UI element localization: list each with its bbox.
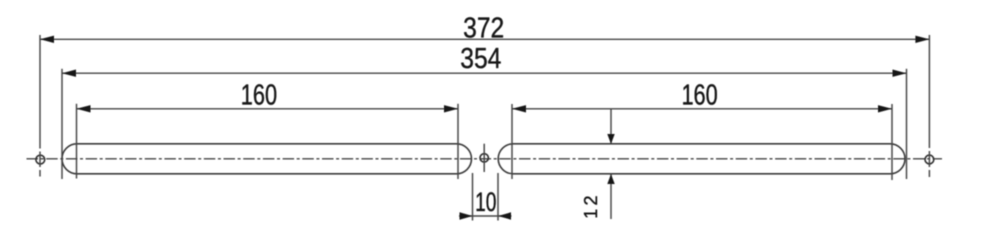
label 354 bbox=[460, 42, 501, 74]
dimension line 160 right bbox=[512, 108, 892, 110]
rod left (pill outline) bbox=[62, 144, 472, 174]
dimension line 10 (gap) with outside arrows bbox=[459, 215, 512, 217]
hole circle left bbox=[36, 155, 45, 164]
label 160 right bbox=[681, 80, 717, 112]
extension line right for gap 10 bbox=[497, 173, 499, 221]
middle circle vertical centerline bbox=[483, 144, 485, 172]
dimension 12 vertical line bottom tail bbox=[610, 174, 612, 219]
arrow 160-right left bbox=[512, 105, 526, 112]
label 160 left bbox=[241, 80, 277, 112]
dimension line 372 bbox=[40, 38, 929, 40]
rod right (pill outline) bbox=[498, 144, 905, 174]
extension line right for 372 (through right circle, dash-dot) bbox=[928, 35, 930, 177]
dimension 12 vertical line top tail bbox=[610, 109, 612, 144]
hole circle right bbox=[925, 155, 934, 164]
extension line left for 354 (tangent to left rod end) bbox=[61, 69, 63, 179]
arrow 10 right (points left) bbox=[498, 212, 511, 219]
extension line left for 160-left (crosses rod) bbox=[76, 104, 78, 179]
arrow 372 left bbox=[40, 36, 54, 43]
extension line left for 160-right (crosses rod) bbox=[511, 104, 513, 179]
dimension line 354 bbox=[62, 72, 907, 74]
arrow 160-left left bbox=[77, 105, 91, 112]
svg-text:372: 372 bbox=[463, 11, 504, 43]
svg-text:12: 12 bbox=[581, 192, 601, 218]
svg-text:160: 160 bbox=[681, 80, 717, 112]
extension line left for 372 (through left circle, dash-dot) bbox=[39, 35, 41, 177]
arrow 354 left bbox=[62, 70, 76, 77]
extension line right for 160-left (crosses rod) bbox=[457, 104, 459, 179]
arrow 10 left (points right) bbox=[460, 212, 473, 219]
dimension line 160 left bbox=[77, 108, 459, 110]
arrow 354 right bbox=[893, 70, 907, 77]
hole circle middle bbox=[480, 154, 488, 162]
arrow 12 top (points down) bbox=[607, 134, 614, 144]
label 372 bbox=[463, 11, 504, 43]
svg-text:354: 354 bbox=[460, 42, 501, 74]
arrow 160-left right bbox=[444, 105, 458, 112]
extension line right for 354 (tangent to right rod end) bbox=[906, 69, 908, 179]
label 10 bbox=[475, 187, 496, 217]
arrow 160-right right bbox=[878, 105, 892, 112]
centerline (dash-dot axis through both rods) bbox=[27, 158, 943, 160]
label 12 (rotated) bbox=[581, 192, 601, 218]
svg-text:160: 160 bbox=[241, 80, 277, 112]
arrow 12 bottom (points up) bbox=[607, 174, 614, 184]
arrow 372 right bbox=[915, 36, 929, 43]
extension line left for gap 10 bbox=[472, 173, 474, 221]
svg-text:10: 10 bbox=[475, 187, 496, 217]
extension line right for 160-right (crosses rod) bbox=[891, 104, 893, 180]
